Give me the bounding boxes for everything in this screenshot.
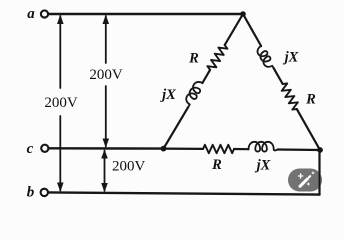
node bottom-left vertex bbox=[161, 146, 167, 152]
wire c-line bbox=[49, 147, 164, 150]
inductor jX bottom bbox=[249, 142, 278, 152]
wire left-side upper bbox=[225, 14, 243, 45]
wire bottom right bbox=[278, 148, 321, 151]
svg-text:jX: jX bbox=[283, 50, 299, 66]
voltage arrow 200V a-c bbox=[103, 15, 110, 148]
resistor R left bbox=[206, 43, 228, 72]
svg-text:200V: 200V bbox=[89, 67, 123, 83]
wire a-line bbox=[48, 13, 243, 15]
svg-text:200V: 200V bbox=[112, 159, 146, 175]
wire left-side lower bbox=[164, 107, 189, 149]
svg-text:R: R bbox=[211, 157, 222, 173]
wire left-side mid bbox=[202, 70, 210, 83]
inductor jX right bbox=[255, 45, 275, 71]
wire b-line bbox=[48, 192, 319, 194]
wire bottom mid bbox=[234, 148, 249, 150]
wire right vertical bbox=[318, 150, 320, 195]
inductor jX left bbox=[183, 80, 205, 109]
terminal c bbox=[41, 145, 48, 152]
svg-text:200V: 200V bbox=[44, 95, 78, 111]
voltage arrow 200V a-b bbox=[57, 15, 64, 192]
resistor R right bbox=[279, 82, 300, 111]
node top vertex bbox=[240, 11, 246, 17]
svg-text:R: R bbox=[188, 51, 199, 67]
svg-text:jX: jX bbox=[160, 87, 176, 103]
terminal a bbox=[41, 10, 48, 17]
wire right-side lower bbox=[297, 109, 320, 150]
svg-text:jX: jX bbox=[255, 158, 271, 174]
svg-text:b: b bbox=[27, 184, 35, 200]
terminal b bbox=[41, 189, 48, 196]
wire bottom left bbox=[164, 147, 204, 150]
UI overlay edit button bbox=[288, 169, 322, 195]
voltage arrow 200V c-b bbox=[101, 149, 108, 192]
svg-text:c: c bbox=[27, 141, 34, 157]
wire right-side mid bbox=[274, 68, 283, 84]
resistor R bottom bbox=[203, 145, 234, 153]
svg-text:a: a bbox=[27, 6, 35, 22]
node bottom-right vertex bbox=[317, 147, 323, 153]
svg-text:R: R bbox=[305, 92, 316, 108]
wire right-side upper bbox=[243, 14, 261, 46]
